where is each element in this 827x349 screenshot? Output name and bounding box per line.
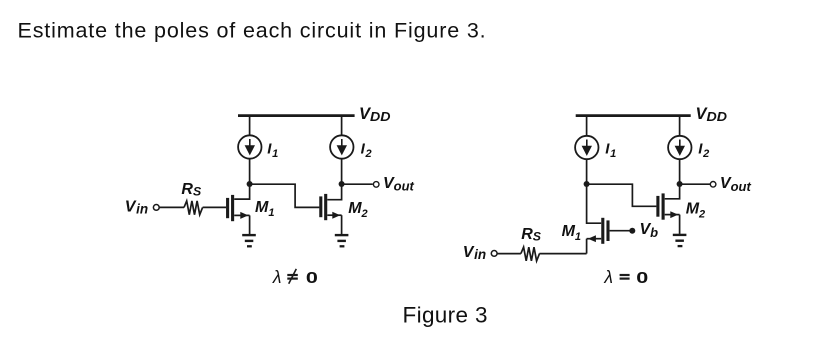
ground at M2 source (left) — [335, 235, 349, 246]
wire M1 gate to Vb (right) — [610, 230, 630, 232]
resistor RS (left) — [184, 201, 203, 215]
label lambda = 0 (right) — [603, 267, 648, 287]
terminal Vout (right) — [710, 182, 716, 188]
current source I2 (right) — [668, 136, 691, 159]
svg-text:Vout: Vout — [720, 175, 752, 194]
svg-text:I1: I1 — [605, 141, 616, 160]
wire I1 to node A — [249, 159, 251, 185]
svg-text:I2: I2 — [361, 141, 372, 160]
wire rail to I2 (right) — [679, 115, 681, 136]
wire Vin to RS (left) — [159, 206, 184, 208]
svg-text:λ: λ — [603, 267, 613, 287]
svg-text:Vin: Vin — [125, 198, 148, 216]
svg-text:Figure 3: Figure 3 — [403, 302, 488, 327]
terminal Vin (left) — [153, 205, 159, 211]
ground at M2 source (right) — [673, 235, 687, 246]
label lambda != 0 (left) — [272, 267, 318, 287]
svg-text:M1: M1 — [255, 199, 274, 219]
svg-text:I1: I1 — [267, 141, 278, 160]
svg-text:Estimate the poles of each cir: Estimate the poles of each circuit in Fi… — [18, 19, 487, 43]
svg-text:M2: M2 — [348, 200, 367, 220]
transistor M1 (left, NMOS) — [228, 184, 250, 235]
terminal Vin (right) — [491, 251, 497, 257]
node Vout junction dot (right) — [677, 181, 683, 187]
node Vout junction dot (left) — [339, 181, 345, 187]
transistor M1 (right, NMOS common-gate, mirrored) — [587, 184, 608, 254]
wire rail to I1 (right) — [586, 115, 588, 136]
wire Vout node to terminal (left) — [342, 183, 373, 185]
ground at M1 source (left) — [242, 235, 256, 246]
svg-text:Vout: Vout — [383, 175, 415, 194]
node Vb dot (right) — [629, 228, 635, 234]
wire node B to M2 gate (right) — [587, 184, 657, 206]
wire I2 to Vout node (right) — [679, 159, 681, 184]
wire Vout node to terminal (right) — [680, 183, 711, 185]
transistor M2 (right, NMOS) — [658, 184, 680, 234]
svg-text:λ: λ — [272, 267, 282, 287]
svg-text:VDD: VDD — [359, 105, 391, 124]
terminal Vout (left) — [373, 182, 379, 188]
svg-text:VDD: VDD — [696, 105, 728, 124]
wire M1 source to RS (right) — [539, 253, 586, 255]
wire I1 to node B (right) — [586, 159, 588, 184]
current source I1 (right) — [575, 136, 598, 159]
svg-text:Vin: Vin — [463, 244, 486, 262]
svg-text:RS: RS — [521, 226, 542, 244]
wire I2 to Vout node (left) — [341, 159, 343, 185]
svg-text:0: 0 — [306, 270, 318, 287]
current source I1 (left) — [238, 135, 261, 158]
VDD rail (right) — [576, 114, 691, 117]
svg-text:I2: I2 — [698, 141, 709, 160]
VDD rail (left) — [238, 114, 355, 117]
svg-text:M2: M2 — [686, 201, 705, 221]
wire node A to M2 gate (left) — [250, 184, 320, 207]
svg-text:0: 0 — [636, 270, 648, 287]
node B junction dot (M1 drain, right) — [584, 181, 590, 187]
wire rail to I2 (left) — [341, 115, 343, 136]
wire RS to M1 gate (left) — [203, 206, 227, 208]
node A junction dot (M1 drain) — [247, 181, 253, 187]
svg-text:M1: M1 — [562, 223, 581, 243]
transistor M2 (left, NMOS) — [321, 184, 342, 235]
svg-text:Vb: Vb — [640, 221, 659, 240]
wire Vin to RS (right) — [497, 253, 521, 255]
svg-text:RS: RS — [181, 181, 202, 199]
wire rail to I1 (left) — [249, 115, 251, 136]
current source I2 (left) — [330, 135, 353, 158]
resistor RS (right) — [521, 247, 540, 261]
